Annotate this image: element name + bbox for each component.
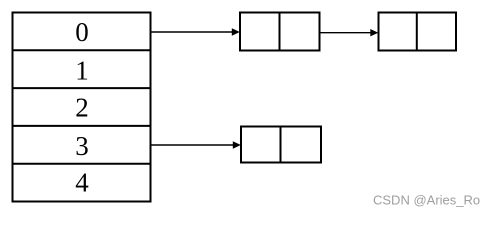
- watermark CSDN @Aries_Ro: [373, 193, 480, 208]
- svg-text:1: 1: [75, 55, 89, 85]
- pointer arrow from node A to node B: [321, 29, 379, 36]
- svg-text:4: 4: [75, 168, 89, 198]
- array index label 1: [75, 55, 89, 85]
- node C cell divider: [280, 127, 282, 163]
- pointer arrow from slot 0 to node A: [152, 28, 240, 35]
- linked-list node C box: [241, 127, 321, 163]
- svg-text:3: 3: [75, 131, 89, 161]
- array row divider 3: [13, 125, 151, 127]
- array row divider 1: [13, 49, 151, 51]
- svg-text:2: 2: [75, 93, 89, 123]
- svg-text:0: 0: [75, 17, 89, 47]
- array index label 4: [75, 168, 89, 198]
- node B cell divider: [416, 13, 418, 51]
- array row divider 2: [13, 87, 151, 89]
- array row divider 4: [13, 163, 151, 165]
- pointer arrow from slot 3 to node C: [152, 141, 241, 148]
- linked-list node B box: [379, 13, 457, 51]
- array outer box: [13, 13, 151, 202]
- array index label 2: [75, 93, 89, 123]
- linked-list node A box: [240, 13, 320, 51]
- node A cell divider: [279, 13, 281, 51]
- array index label 0: [75, 17, 89, 47]
- svg-text:CSDN @Aries_Ro: CSDN @Aries_Ro: [373, 193, 480, 208]
- array index label 3: [75, 131, 89, 161]
